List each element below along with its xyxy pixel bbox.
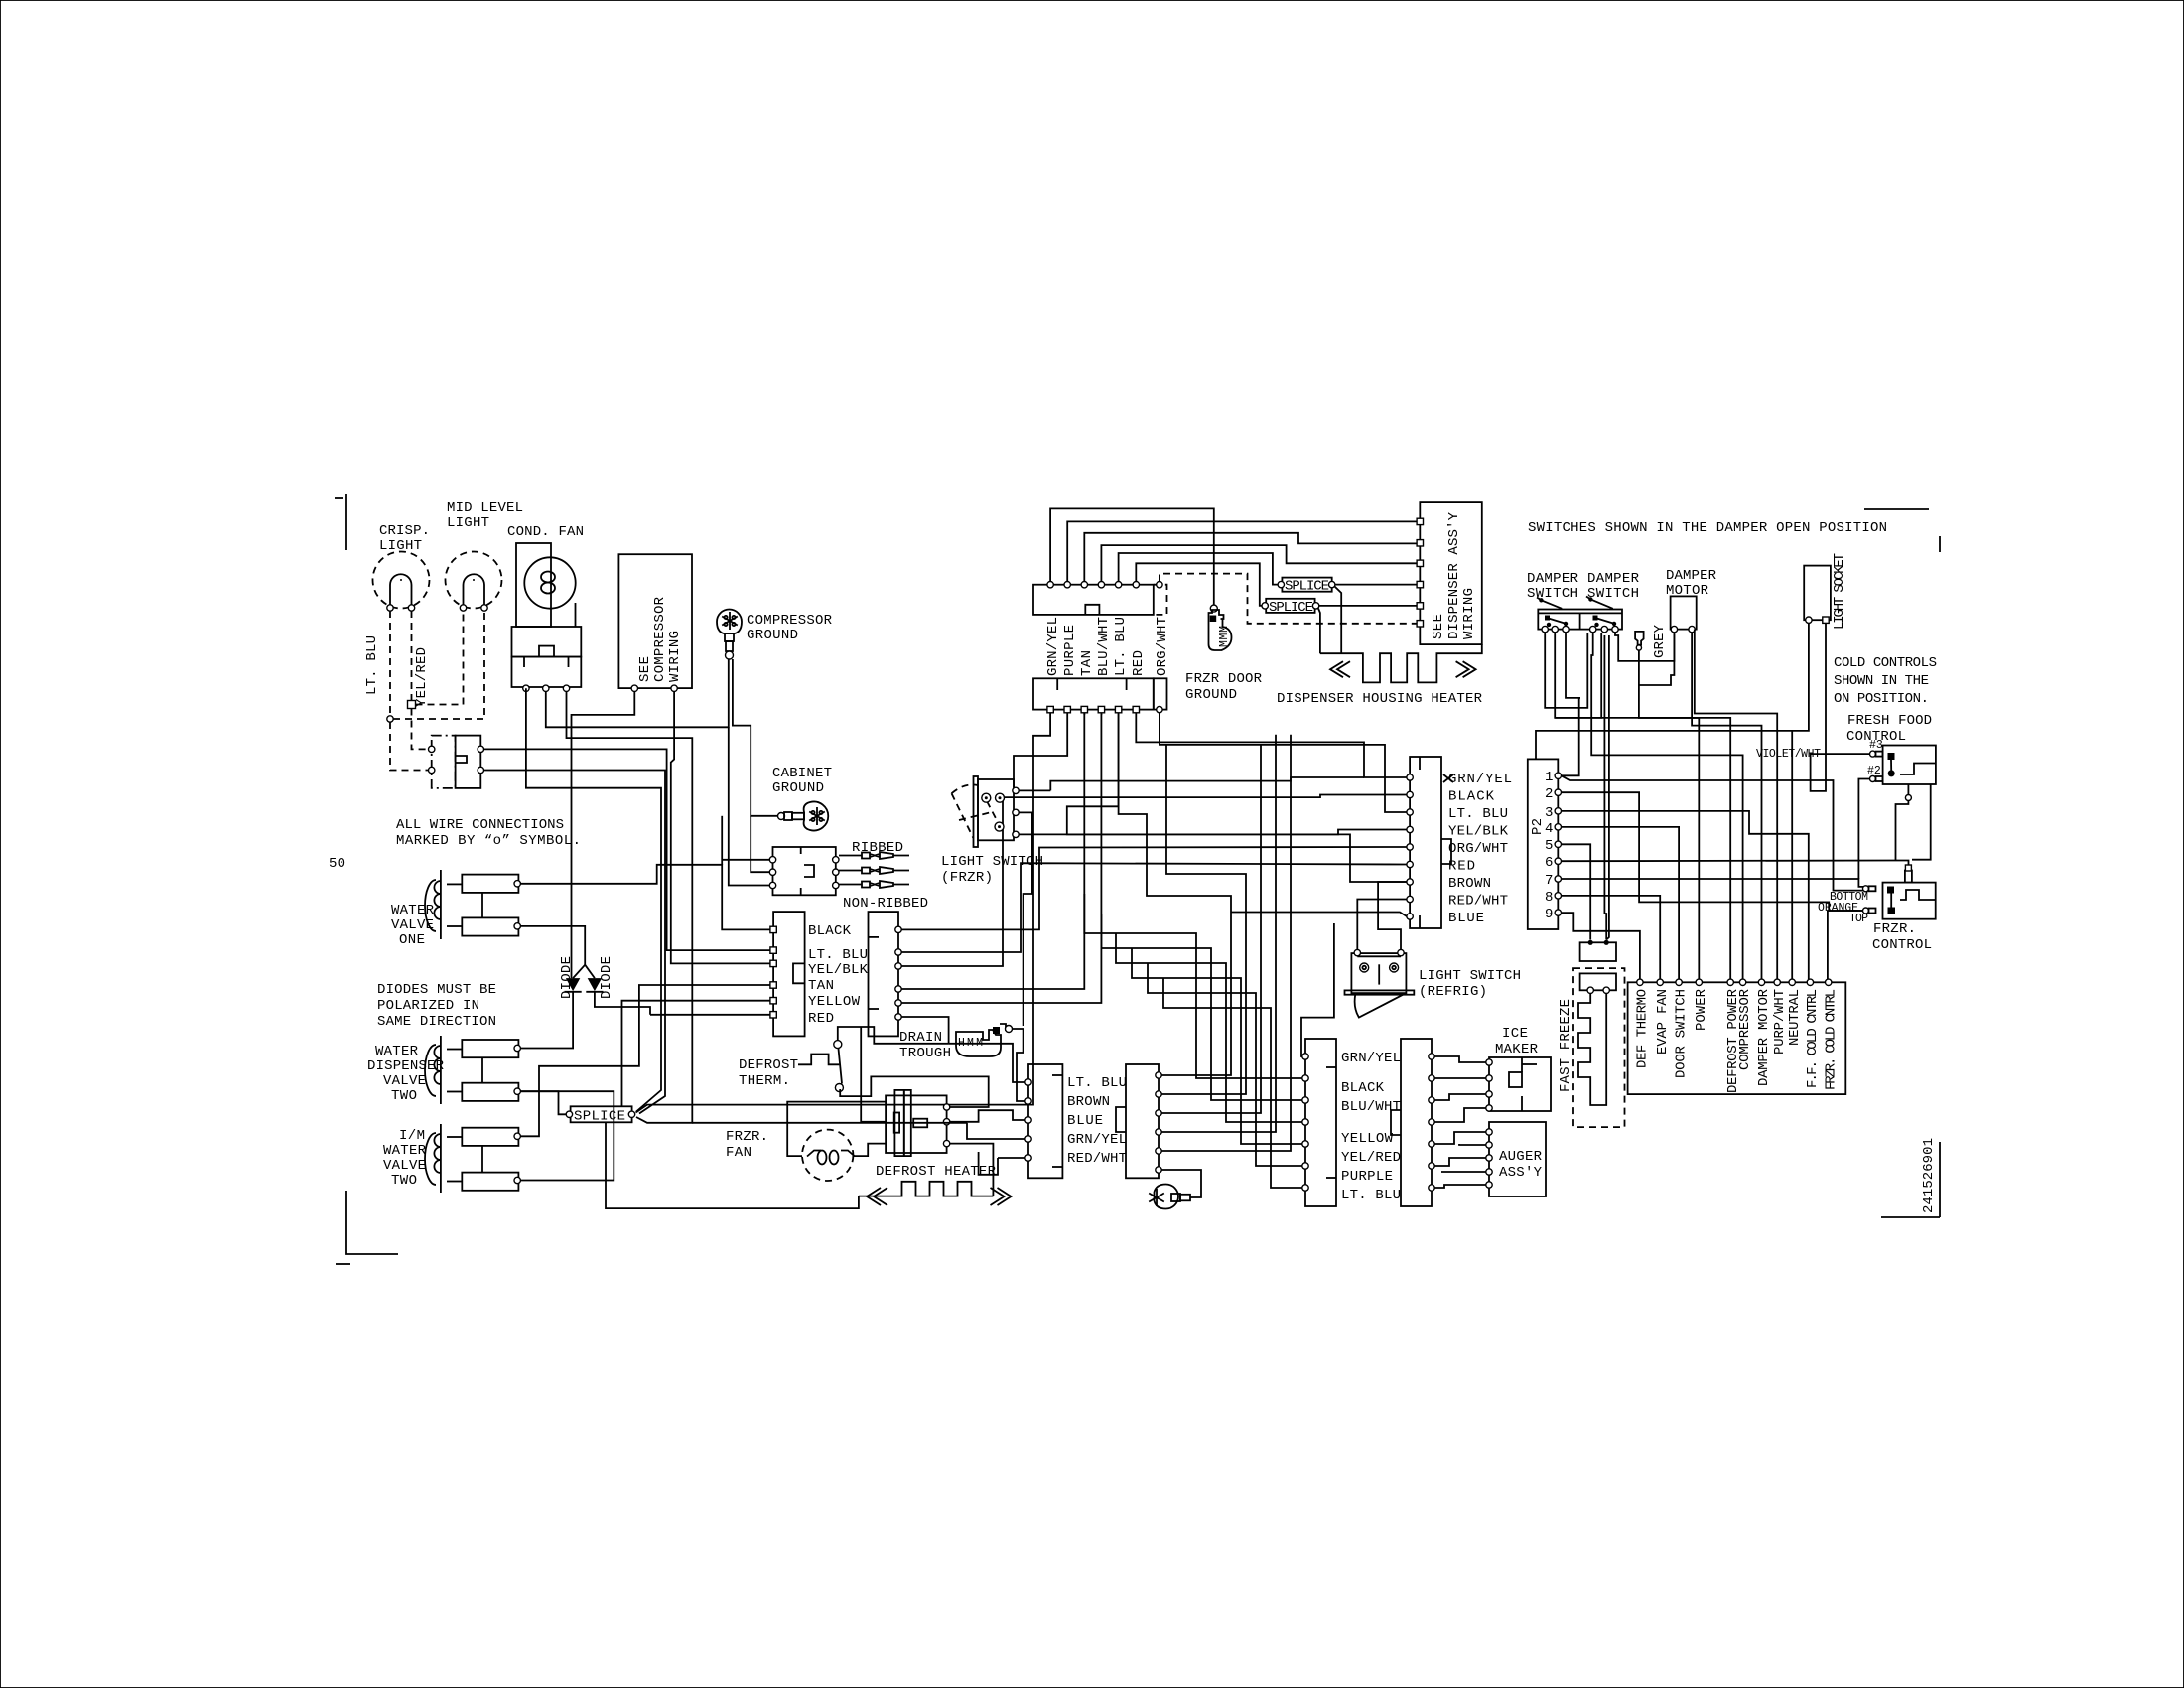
svg-text:LIGHT SWITCH: LIGHT SWITCH bbox=[941, 854, 1043, 870]
ground FRZR DOOR GROUND bbox=[1209, 605, 1232, 650]
box SEE COMPRESSOR WIRING bbox=[618, 554, 692, 691]
fast freeze inner switch box bbox=[1580, 973, 1616, 993]
wire t7 dashed to dispenser box pin6 bbox=[1160, 574, 1417, 624]
svg-text:SAME DIRECTION: SAME DIRECTION bbox=[377, 1014, 496, 1030]
wire ribbed plug t1 feed bbox=[722, 859, 769, 861]
svg-text:SPLICE: SPLICE bbox=[1269, 600, 1313, 616]
wire right column r6 run bbox=[901, 1017, 948, 1044]
wire b1 stub bbox=[1049, 712, 1051, 714]
svg-text:GRN/YEL: GRN/YEL bbox=[1067, 1132, 1127, 1148]
wire fan t1 into splice fan bbox=[526, 688, 661, 1111]
wire fan t3 into splice via lower run bbox=[567, 692, 693, 1123]
lamp crisper light bbox=[373, 552, 430, 612]
water dispenser valve two bbox=[425, 1036, 520, 1104]
label DRAIN TROUGH bbox=[899, 1030, 951, 1061]
connector P2 bbox=[1528, 759, 1562, 929]
tick at GRN/YEL asterisk bbox=[1443, 774, 1453, 782]
fan FRZR. FAN bbox=[726, 1129, 855, 1181]
wire b6 staircase to center connector GRN/YEL bbox=[1136, 713, 1407, 777]
thermostat DEFROST THERM. bbox=[739, 1041, 843, 1092]
ground lug freezer liner bbox=[1149, 1185, 1190, 1209]
svg-text:ALL WIRE CONNECTIONS: ALL WIRE CONNECTIONS bbox=[396, 817, 564, 833]
wire b2 PURPLE to frzr light switch top bbox=[1014, 713, 1067, 787]
svg-text:8: 8 bbox=[1545, 890, 1553, 906]
wire split to diode1 anode bbox=[573, 965, 585, 978]
wire compressor t2 to connector T3 bbox=[671, 692, 773, 964]
svg-text:ORG/WHT: ORG/WHT bbox=[1155, 617, 1170, 676]
condenser fan motor bbox=[516, 543, 576, 627]
wire b7 staircase to center connector LT. BLU bbox=[1160, 713, 1407, 812]
wire crisper switch lower into splice fan bbox=[484, 771, 666, 1114]
node square junction bbox=[408, 701, 416, 709]
ground lug CABINET GROUND bbox=[778, 802, 829, 831]
light socket box bbox=[1804, 566, 1831, 624]
label MID LEVEL LIGHT bbox=[447, 500, 523, 531]
label WATER DISPENSER VALVE TWO bbox=[367, 1044, 445, 1104]
wire cabinet ground tie bbox=[721, 816, 723, 865]
svg-text:SWITCHES SHOWN IN THE DAMPER O: SWITCHES SHOWN IN THE DAMPER OPEN POSITI… bbox=[1528, 520, 1887, 536]
frzr control top stub crimp bbox=[1905, 865, 1912, 883]
wire t5 to splice A bbox=[1119, 553, 1279, 585]
wire t1 GRN/YEL up over to frzr door ground bbox=[1050, 508, 1214, 605]
svg-text:DISPENSER HOUSING HEATER: DISPENSER HOUSING HEATER bbox=[1277, 691, 1483, 707]
damper switch assembly bbox=[1537, 597, 1622, 633]
svg-text:GROUND: GROUND bbox=[772, 780, 824, 796]
svg-text:YELLOW: YELLOW bbox=[1341, 1131, 1394, 1147]
wire P2-7 to frzr bottom crimp riser bbox=[1562, 879, 1866, 887]
wire t6 to splice B bbox=[1136, 563, 1262, 606]
wire dashed common to mid lamp right bbox=[393, 611, 484, 719]
svg-text:DISPENSER ASS'Y: DISPENSER ASS'Y bbox=[1446, 511, 1462, 639]
svg-text:YEL/BLK: YEL/BLK bbox=[1448, 824, 1509, 840]
svg-text:SEE: SEE bbox=[1431, 614, 1446, 639]
wire P2-5 to fast freeze relay bbox=[1562, 844, 1591, 939]
svg-text:I/M: I/M bbox=[399, 1128, 425, 1144]
svg-text:RED: RED bbox=[808, 1011, 834, 1027]
svg-text:TROUGH: TROUGH bbox=[899, 1046, 951, 1061]
svg-text:1: 1 bbox=[1545, 770, 1553, 785]
wire P2-8 to EVAP FAN bbox=[1562, 896, 1661, 979]
wire P2-1 to frzr control bottom crimp bbox=[1562, 775, 1866, 890]
wire fan t2 to compressor ground bbox=[546, 659, 729, 727]
diode D2 bbox=[586, 978, 603, 992]
svg-text:BROWN: BROWN bbox=[1067, 1094, 1110, 1110]
box ICE MAKER bbox=[1486, 1057, 1551, 1111]
svg-text:PURPLE: PURPLE bbox=[1062, 625, 1078, 676]
svg-text:YEL/BLK: YEL/BLK bbox=[808, 962, 869, 978]
terminal block (power board) bbox=[1628, 979, 1846, 1094]
wire damper motor right to terminal block DAMPER MOTOR bbox=[1692, 633, 1761, 979]
svg-text:LT. BLU: LT. BLU bbox=[1448, 806, 1508, 822]
svg-text:FRZR. COLD CNTRL: FRZR. COLD CNTRL bbox=[1823, 989, 1839, 1090]
wire b5 staircase to center connector BROWN bbox=[1067, 713, 1407, 882]
svg-text:50: 50 bbox=[329, 856, 345, 872]
box SEE DISPENSER ASS'Y WIRING bbox=[1417, 502, 1482, 644]
svg-text:TWO: TWO bbox=[391, 1173, 417, 1189]
note: all wire connections marked by o symbol bbox=[396, 817, 581, 849]
label FRZR DOOR GROUND bbox=[1185, 671, 1263, 703]
wire drain trough tie bbox=[1013, 1029, 1024, 1049]
splice box B bbox=[1262, 599, 1319, 616]
wire right column r2 riser bbox=[901, 863, 1407, 952]
wire light socket right down to violet junction bbox=[1811, 623, 1826, 791]
svg-text:MID LEVEL: MID LEVEL bbox=[447, 500, 523, 516]
svg-text:SPLICE: SPLICE bbox=[574, 1108, 625, 1124]
svg-text:CONTROL: CONTROL bbox=[1872, 937, 1932, 953]
switch LIGHT SWITCH (REFRIG) bbox=[1345, 949, 1415, 1017]
svg-text:#2: #2 bbox=[1867, 765, 1881, 777]
svg-text:SEE: SEE bbox=[637, 656, 653, 682]
svg-text:9: 9 bbox=[1545, 907, 1553, 922]
svg-text:COND. FAN: COND. FAN bbox=[507, 524, 584, 540]
svg-text:NON-RIBBED: NON-RIBBED bbox=[843, 896, 928, 912]
wire defrost therm top run right bbox=[838, 1027, 949, 1044]
svg-text:EVAP FAN: EVAP FAN bbox=[1655, 989, 1671, 1055]
svg-text:TAN: TAN bbox=[808, 978, 834, 994]
switch LIGHT SWITCH (FRZR) bbox=[952, 776, 1020, 847]
wire crisper switch upper to connector T2 bbox=[484, 749, 774, 950]
svg-text:PURP/WHT: PURP/WHT bbox=[1772, 989, 1788, 1055]
connector icemaker harness left column bbox=[1302, 1039, 1336, 1206]
svg-text:ORG/WHT: ORG/WHT bbox=[1448, 841, 1508, 857]
svg-text:#3: #3 bbox=[1869, 739, 1883, 752]
svg-text:MMM: MMM bbox=[1218, 626, 1231, 647]
wire plug terminal r2 run bbox=[950, 1110, 1025, 1122]
svg-text:BLACK: BLACK bbox=[808, 923, 852, 939]
svg-text:DIODES MUST BE: DIODES MUST BE bbox=[377, 982, 496, 998]
svg-text:241526901: 241526901 bbox=[1921, 1138, 1937, 1213]
border corner mark top-right bbox=[1864, 509, 1940, 552]
wire water valve one top to connector T1 BLACK bbox=[520, 865, 773, 930]
svg-text:WIRING: WIRING bbox=[1461, 588, 1477, 639]
wire defrost therm bottom run to heater right bbox=[840, 1076, 989, 1107]
svg-text:CRISP.: CRISP. bbox=[379, 523, 430, 539]
svg-text:WATER: WATER bbox=[391, 903, 435, 918]
svg-text:SWITCH SWITCH: SWITCH SWITCH bbox=[1527, 586, 1639, 602]
wire frzr switch top terminal run right bbox=[1019, 789, 1050, 791]
wires damper switch loops bbox=[1545, 633, 1742, 979]
wire dispenser valve lower to I/M valve lower bbox=[520, 1091, 614, 1180]
svg-text:AUGER: AUGER bbox=[1499, 1149, 1543, 1165]
wire dashed square junction to mid lamp left bbox=[416, 611, 464, 705]
svg-text:(REFRIG): (REFRIG) bbox=[1419, 984, 1487, 1000]
svg-text:ONE: ONE bbox=[399, 932, 425, 948]
wire heater to RED/WHT t5 bbox=[998, 1157, 1025, 1159]
wire riser feed ribbed plug t3 bbox=[729, 727, 770, 885]
svg-text:FRESH FOOD: FRESH FOOD bbox=[1847, 713, 1932, 729]
wire fast freeze right leg down bbox=[1604, 635, 1606, 940]
wire t2 to dispenser box pin1 bbox=[1067, 521, 1417, 581]
wire t3 to dispenser box pin2 bbox=[1084, 533, 1417, 582]
wire junction down to switch lower terminal (dashed) bbox=[390, 722, 428, 771]
connector pair LT.BLU/BROWN right column bbox=[1116, 1064, 1161, 1178]
wire GRN/YEL lower trunk bbox=[1301, 923, 1334, 1056]
wire valve one lower to diode split bbox=[520, 926, 585, 965]
svg-text:LT. BLU: LT. BLU bbox=[1341, 1188, 1401, 1203]
wire heater left end riser bbox=[606, 1122, 859, 1208]
svg-text:F.F. COLD CNTRL: F.F. COLD CNTRL bbox=[1805, 989, 1821, 1088]
svg-text:LT. BLU: LT. BLU bbox=[364, 635, 380, 695]
svg-text:LT. BLU: LT. BLU bbox=[1113, 617, 1129, 676]
wire diode1 cathode down to water dispenser valve top bbox=[520, 992, 573, 1049]
svg-text:FAN: FAN bbox=[726, 1145, 751, 1161]
wire frzr fan loop bbox=[787, 1102, 886, 1157]
wires trunks into icemaker connector left bbox=[1084, 894, 1302, 1188]
svg-text:WIRING: WIRING bbox=[667, 631, 683, 682]
wire b1 GRN/YEL long run into splice bbox=[636, 713, 1051, 1113]
wire ground lug to connector bbox=[1161, 1170, 1201, 1197]
wire frzr cold cntrl pin riser to top crimp bbox=[1828, 911, 1863, 979]
wire right column r4 to b3 bbox=[901, 713, 1084, 989]
svg-text:2: 2 bbox=[1545, 786, 1553, 802]
label ICE MAKER bbox=[1495, 1026, 1539, 1057]
wire square junction to switch upper terminal (dashed) bbox=[412, 709, 429, 750]
svg-text:FAST FREEZE: FAST FREEZE bbox=[1558, 999, 1573, 1092]
svg-text:SHOWN IN THE: SHOWN IN THE bbox=[1834, 673, 1929, 689]
svg-text:5: 5 bbox=[1545, 838, 1553, 854]
svg-text:ASS'Y: ASS'Y bbox=[1499, 1165, 1543, 1181]
connector column right (cabinet side) bbox=[869, 912, 902, 1036]
switch crisper light door switch bbox=[429, 736, 484, 788]
wire damper switch compressor drop bbox=[1555, 718, 1730, 979]
wires icemaker feeds bbox=[1434, 1056, 1486, 1122]
wire right column r3 riser bbox=[901, 795, 1407, 967]
fast freeze dashed enclosure bbox=[1573, 968, 1625, 1127]
svg-text:VALVE: VALVE bbox=[383, 1158, 426, 1174]
svg-text:7: 7 bbox=[1545, 873, 1553, 889]
wire lamp1 right lead to square junction (dashed) bbox=[411, 611, 413, 701]
svg-text:LT. BLU: LT. BLU bbox=[808, 947, 868, 963]
border corner mark top-left bbox=[335, 494, 346, 550]
wire P2-4 to DOOR SWITCH bbox=[1562, 827, 1680, 979]
labels terminal block (vertical) bbox=[1635, 988, 1840, 1093]
wire grey stem tie to motor left bbox=[1639, 633, 1675, 685]
ribbed wire end symbols row2 bbox=[839, 867, 909, 874]
svg-text:YEL/RED: YEL/RED bbox=[414, 647, 430, 707]
fast freeze stepped element bbox=[1578, 994, 1606, 1106]
svg-text:ICE: ICE bbox=[1502, 1026, 1528, 1042]
labels wire colors P1 (vertical) bbox=[1045, 617, 1170, 676]
labels wire colors defrost connector bbox=[1067, 1075, 1127, 1167]
diode D1 bbox=[565, 978, 582, 992]
ribbed wire end symbols row1 bbox=[839, 852, 909, 859]
water valve one bbox=[425, 870, 520, 939]
condenser fan connector block bbox=[512, 627, 582, 692]
svg-text:MAKER: MAKER bbox=[1495, 1042, 1539, 1057]
node junction lamp commons bbox=[387, 716, 393, 722]
label FRESH FOOD CONTROL bbox=[1846, 713, 1932, 745]
ff control bottom stub and crimp bbox=[1896, 784, 1912, 861]
svg-text:CABINET: CABINET bbox=[772, 766, 832, 781]
wire defrost therm top to LT.BLU t1 bbox=[949, 1044, 1025, 1082]
connector column left (harness side) bbox=[770, 912, 805, 1036]
defrost heater plug assembly bbox=[886, 1090, 950, 1156]
pin numbers P2 bbox=[1545, 770, 1553, 922]
svg-text:4: 4 bbox=[1545, 821, 1553, 837]
wire lamp1 left lead (dashed) bbox=[389, 611, 391, 716]
label CRISP. LIGHT bbox=[379, 523, 430, 554]
wire dispenser valve lower to splice left bbox=[520, 1091, 566, 1114]
label DAMPER MOTOR bbox=[1666, 568, 1717, 599]
wire b4 stub down bbox=[1100, 713, 1102, 715]
label DIODES MUST BE POLARIZED IN SAME DIRECTION bbox=[377, 982, 496, 1030]
wire staircase to center connector ORG/WHT bbox=[1050, 777, 1364, 790]
svg-text:YELLOW: YELLOW bbox=[808, 994, 861, 1010]
svg-text:LIGHT: LIGHT bbox=[447, 515, 489, 531]
svg-text:COMPRESSOR: COMPRESSOR bbox=[652, 596, 668, 682]
wire right column rows to lower connector trunks bbox=[1119, 713, 1291, 1151]
label CABINET GROUND bbox=[772, 766, 832, 796]
svg-text:(FRZR): (FRZR) bbox=[941, 870, 993, 886]
wire BLUE row feed from left bbox=[1231, 913, 1407, 917]
svg-text:BLACK: BLACK bbox=[1341, 1080, 1385, 1096]
svg-text:MARKED BY “o” SYMBOL.: MARKED BY “o” SYMBOL. bbox=[396, 833, 581, 849]
splice box left bbox=[566, 1106, 635, 1124]
svg-text:TWO: TWO bbox=[391, 1088, 417, 1104]
svg-text:YEL/RED: YEL/RED bbox=[1341, 1150, 1401, 1166]
svg-text:DAMPER: DAMPER bbox=[1666, 568, 1717, 584]
wire violet/wht riser to #3 bbox=[1822, 753, 1870, 755]
wire frzr switch mid terminal run bbox=[1019, 812, 1032, 1026]
svg-text:LIGHT SWITCH: LIGHT SWITCH bbox=[1419, 968, 1521, 984]
wire P2-2 to frzr control top crimp bbox=[1562, 792, 1866, 911]
wire right column r1 to b5 riser bbox=[901, 847, 1407, 929]
frzr control box bbox=[1883, 883, 1936, 919]
wire damper motor parallel line to PURP/WHT bbox=[1695, 630, 1777, 979]
wire splice B right to dispenser pin5 bbox=[1319, 605, 1417, 607]
svg-text:WATER: WATER bbox=[375, 1044, 419, 1059]
svg-text:RED: RED bbox=[1448, 859, 1475, 875]
wire compressor t1 to diode1 top bbox=[572, 692, 635, 979]
terminal crimp frzr top bbox=[1863, 908, 1876, 914]
wire #2 to frzr control bottom riser bbox=[1858, 779, 1869, 880]
svg-text:GROUND: GROUND bbox=[747, 628, 798, 643]
border corner mark bottom-right bbox=[1881, 1142, 1940, 1217]
label DAMPER DAMPER / SWITCH SWITCH bbox=[1527, 571, 1640, 602]
heater element defrost bbox=[859, 1182, 1012, 1205]
svg-text:3: 3 bbox=[1545, 805, 1553, 821]
svg-text:BLUE: BLUE bbox=[1448, 911, 1484, 926]
label COMPRESSOR GROUND bbox=[747, 613, 833, 643]
water valve I/M two bbox=[425, 1124, 520, 1193]
wire drain trough to BROWN t2 bbox=[1017, 1049, 1025, 1101]
wire red net to connector T6 RED bbox=[650, 1014, 773, 1016]
svg-text:P2: P2 bbox=[1530, 818, 1546, 835]
svg-text:6: 6 bbox=[1545, 855, 1553, 871]
svg-text:WATER: WATER bbox=[383, 1143, 427, 1159]
fresh food control box bbox=[1883, 746, 1936, 785]
wire light socket left to NEUTRAL bbox=[1792, 623, 1809, 979]
label FRZR. CONTROL bbox=[1872, 921, 1932, 953]
lamp mid level light bbox=[446, 552, 502, 612]
svg-text:FRZR DOOR: FRZR DOOR bbox=[1185, 671, 1263, 687]
terminal crimp frzr bottom bbox=[1863, 886, 1876, 892]
svg-text:TAN: TAN bbox=[1079, 650, 1095, 676]
svg-text:GROUND: GROUND bbox=[1185, 687, 1237, 703]
svg-text:DAMPER DAMPER: DAMPER DAMPER bbox=[1527, 571, 1640, 587]
wire b3 stub down bbox=[1083, 713, 1085, 715]
labels wire colors icemaker connector bbox=[1341, 1051, 1401, 1203]
wire plug r1 long run to splice line bbox=[692, 1122, 967, 1124]
wire frzr switch bottom terminal run to center connector YEL/BLK bbox=[1019, 830, 1407, 835]
wire splice A right to dispenser pin4 bbox=[1335, 584, 1417, 586]
svg-text:DEF THERMO: DEF THERMO bbox=[1635, 989, 1651, 1068]
label LIGHT SWITCH (REFRIG) bbox=[1419, 968, 1521, 1000]
svg-text:GREY: GREY bbox=[1652, 624, 1668, 658]
wire heater right end riser bbox=[950, 1144, 994, 1196]
svg-text:VIOLET/WHT: VIOLET/WHT bbox=[1756, 748, 1821, 761]
connector P1 bottom bbox=[1033, 678, 1167, 713]
svg-text:ON POSITION.: ON POSITION. bbox=[1834, 691, 1929, 707]
svg-text:DOOR SWITCH: DOOR SWITCH bbox=[1674, 989, 1690, 1078]
svg-text:PURPLE: PURPLE bbox=[1341, 1169, 1393, 1185]
wire right column r5 to b4 bbox=[901, 713, 1101, 1003]
connector icemaker harness right column bbox=[1391, 1039, 1434, 1206]
svg-text:DISPENSER: DISPENSER bbox=[367, 1058, 445, 1074]
wire damper drop to relay right bbox=[1606, 635, 1609, 940]
svg-text:THERM.: THERM. bbox=[739, 1073, 790, 1089]
svg-text:BROWN: BROWN bbox=[1448, 876, 1491, 892]
connector center (refrig harness) bbox=[1407, 757, 1451, 928]
label AUGER ASS'Y (box) bbox=[1486, 1122, 1546, 1196]
svg-text:BLU/WHT: BLU/WHT bbox=[1096, 617, 1112, 676]
connector block ribbed/non-ribbed bbox=[769, 847, 839, 895]
splice box A bbox=[1278, 578, 1335, 595]
label WATER VALVE ONE bbox=[391, 903, 435, 948]
svg-text:DEFROST: DEFROST bbox=[739, 1057, 798, 1073]
wire t4 to dispenser box pin3 bbox=[1101, 545, 1417, 581]
wire I/M valve top riser bbox=[520, 985, 773, 1136]
wire plug terminal r3 run bbox=[967, 1123, 1025, 1139]
svg-text:POLARIZED IN: POLARIZED IN bbox=[377, 998, 479, 1014]
wire refrig switch left terminal to RED/WHT bbox=[1357, 900, 1407, 950]
svg-text:SPLICE: SPLICE bbox=[1285, 579, 1329, 595]
svg-text:BLACK: BLACK bbox=[1448, 789, 1495, 805]
wire diode2 cathode down to red net bbox=[595, 992, 650, 1015]
wire frzr fan right lead bbox=[853, 1144, 886, 1157]
grey plug bbox=[1635, 632, 1644, 650]
wire splice top riser to connector T5 YELLOW bbox=[622, 1001, 774, 1107]
svg-text:LT. BLU: LT. BLU bbox=[1067, 1075, 1127, 1091]
svg-text:GRN/YEL: GRN/YEL bbox=[1448, 772, 1512, 787]
labels wire colors left connector bbox=[808, 923, 869, 1027]
drain trough symbol bbox=[956, 1024, 1013, 1056]
svg-text:COMPRESSOR: COMPRESSOR bbox=[1737, 988, 1753, 1070]
svg-text:FRZR.: FRZR. bbox=[726, 1129, 768, 1145]
heater DISPENSER HOUSING HEATER bbox=[1320, 644, 1482, 682]
svg-text:LIGHT SOCKET: LIGHT SOCKET bbox=[1832, 553, 1847, 630]
svg-text:RED/WHT: RED/WHT bbox=[1448, 894, 1508, 910]
wire splice B to heater left drop bbox=[1318, 609, 1320, 654]
terminal crimp #2 bbox=[1867, 765, 1883, 782]
wire grey plug to POWER pin bbox=[1639, 650, 1699, 979]
wire ff control right leg down bbox=[1912, 784, 1931, 860]
wire P2-9 to DEF THERMO bbox=[1562, 913, 1640, 979]
border corner mark bottom-left bbox=[336, 1191, 398, 1264]
svg-text:COMPRESSOR: COMPRESSOR bbox=[747, 613, 833, 629]
labels wire colors center connector bbox=[1448, 772, 1512, 926]
ground lug COMPRESSOR GROUND bbox=[717, 610, 742, 660]
non-ribbed wire end symbols row3 bbox=[839, 881, 909, 888]
svg-text:RIBBED: RIBBED bbox=[852, 840, 903, 856]
wire compressor ground to cabinet ground bbox=[733, 659, 778, 816]
label I/M WATER VALVE TWO bbox=[383, 1128, 427, 1189]
svg-text:NEUTRAL: NEUTRAL bbox=[1787, 989, 1803, 1046]
svg-text:FRZR.: FRZR. bbox=[1873, 921, 1916, 937]
label COLD CONTROLS SHOWN IN THE ON POSITION. bbox=[1834, 655, 1937, 707]
wire splice A to heater drop bbox=[1335, 587, 1342, 654]
svg-text:RED/WHT: RED/WHT bbox=[1067, 1151, 1127, 1167]
